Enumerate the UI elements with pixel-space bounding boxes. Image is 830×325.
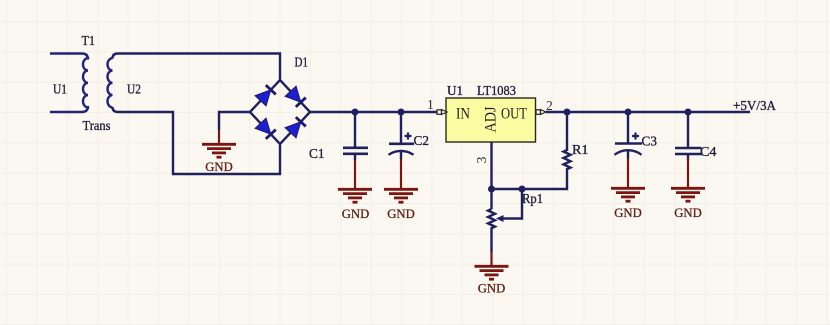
svg-text:ADJ: ADJ — [483, 107, 500, 133]
svg-text:C1: C1 — [309, 147, 325, 162]
svg-text:3: 3 — [474, 156, 489, 163]
wire bridge left vertex to ground — [219, 112, 250, 130]
svg-text:U1: U1 — [447, 84, 463, 99]
svg-text:OUT: OUT — [501, 106, 527, 123]
diode D1 top-left — [255, 85, 276, 106]
node dot wiper junction — [519, 186, 526, 193]
ground GND at bridge — [202, 130, 236, 174]
ground GND below Rp1 — [475, 252, 509, 296]
svg-text:Trans: Trans — [83, 119, 111, 134]
node dot at R1 tap — [564, 109, 571, 116]
ground GND below C4 — [671, 158, 705, 220]
node dot at C1 tap — [352, 109, 359, 116]
svg-text:GND: GND — [205, 159, 233, 174]
svg-text:T1: T1 — [82, 34, 96, 49]
diode D1 bottom-right — [285, 117, 306, 138]
ground GND below C1 — [338, 160, 372, 221]
svg-text:GND: GND — [387, 206, 415, 221]
svg-text:2: 2 — [546, 98, 553, 113]
wire from U2 bottom to bridge bottom vertex — [113, 107, 281, 174]
svg-text:1: 1 — [427, 97, 434, 112]
wire from U2 top to bridge top vertex — [113, 54, 281, 81]
bridge rectifier D1 diamond — [250, 80, 310, 144]
capacitor C2 (polarized) — [389, 112, 415, 159]
node dot pin3 junction — [488, 186, 495, 193]
svg-text:GND: GND — [614, 205, 642, 220]
svg-text:Rp1: Rp1 — [522, 192, 543, 207]
svg-text:C2: C2 — [414, 134, 430, 149]
pin 3 wire down from ADJ — [490, 142, 492, 209]
svg-text:IN: IN — [456, 106, 470, 123]
svg-text:R1: R1 — [572, 143, 589, 158]
capacitor C3 (polarized) — [615, 112, 643, 159]
potentiometer Rp1 wiper arrow — [496, 189, 522, 222]
resistor R1 — [522, 112, 571, 189]
wire output rail — [546, 111, 750, 113]
svg-text:LT1083: LT1083 — [477, 84, 516, 99]
ground GND below C3 — [611, 159, 645, 221]
svg-text:+5V/3A: +5V/3A — [733, 99, 777, 114]
node dot at C2 tap — [398, 109, 405, 116]
potentiometer Rp1 body — [488, 209, 495, 252]
diode D1 top-right — [285, 86, 306, 107]
node dot at C4 tap — [685, 109, 692, 116]
diode D1 bottom-left — [255, 118, 276, 139]
node dot at C3 tap — [625, 109, 632, 116]
wire from pin3 junction to wiper junction — [492, 188, 523, 190]
capacitor C1 — [343, 112, 368, 160]
svg-text:C3: C3 — [642, 135, 658, 150]
svg-text:GND: GND — [342, 206, 370, 221]
svg-text:D1: D1 — [295, 56, 309, 71]
svg-text:U2: U2 — [127, 83, 141, 98]
transformer T1 primary winding U1 — [50, 54, 88, 113]
pin 1 decoration — [437, 110, 447, 115]
pin 2 decoration and wire to output — [536, 110, 546, 115]
svg-text:U1: U1 — [53, 83, 67, 98]
svg-text:GND: GND — [478, 281, 506, 296]
svg-text:GND: GND — [674, 205, 702, 220]
capacitor C4 — [675, 112, 702, 160]
ground GND below C2 — [384, 159, 418, 221]
wire bridge right vertex to regulator pin 1 — [310, 111, 437, 113]
svg-text:C4: C4 — [700, 145, 717, 160]
op-amp U1 regulator LT1083 box — [446, 98, 536, 142]
transformer T1 secondary winding U2 — [108, 58, 113, 107]
